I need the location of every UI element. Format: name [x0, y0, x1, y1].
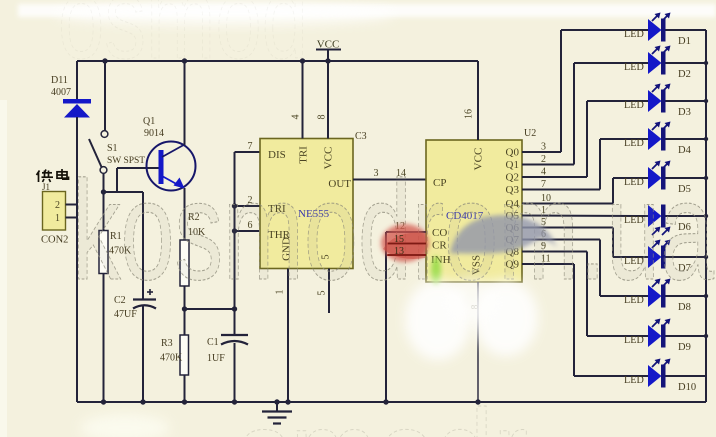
- svg-text:LED: LED: [624, 375, 644, 386]
- wire: NE555 pin 1 GND: [275, 269, 291, 405]
- svg-text:D10: D10: [678, 382, 696, 393]
- wire: NE555 pin 7 DIS stub: [235, 141, 261, 152]
- red marker blob: [381, 224, 429, 262]
- svg-text:4007: 4007: [51, 87, 71, 98]
- svg-text:LED: LED: [624, 100, 644, 111]
- wire: CD4017 pin 15 CR stub: [386, 234, 426, 245]
- green mark: [431, 256, 441, 286]
- capacitor C2 (polarized): [133, 289, 156, 402]
- counter U2 CD4017 body: [426, 140, 522, 282]
- label C3 (NE555 designator): [355, 131, 367, 142]
- label D10: [678, 382, 696, 393]
- LED D9: [624, 319, 671, 348]
- label D7: [678, 263, 691, 274]
- white band top: [18, 3, 716, 25]
- diode D11 label: [51, 75, 71, 98]
- label R3 470K: [160, 338, 183, 364]
- VCC power symbol: [316, 39, 341, 64]
- wire: LED D6 cathode to bus: [666, 215, 707, 217]
- connector J1 body: [43, 192, 66, 231]
- wire: NE555 pin 2 TRI stub: [232, 195, 260, 209]
- wire: CD4017 pin 13 INH stub: [386, 246, 426, 257]
- svg-text:2: 2: [55, 200, 60, 211]
- wire: NE555 pin 6 THR stub: [232, 220, 260, 234]
- wire: left vertical from rail to diode: [76, 61, 78, 100]
- diode D11: [63, 99, 91, 118]
- svg-text:15: 15: [394, 234, 404, 245]
- label D6: [678, 222, 691, 233]
- svg-text:8: 8: [317, 115, 328, 120]
- svg-text:LED: LED: [624, 29, 644, 40]
- svg-text:47UF: 47UF: [114, 309, 137, 320]
- svg-text:C3: C3: [355, 131, 367, 142]
- wire: ground rail: [77, 401, 706, 403]
- label 供电 (power): [37, 169, 69, 182]
- wire: CD4017 pin 12 CO stub: [386, 221, 426, 232]
- svg-text:D9: D9: [678, 342, 691, 353]
- wire: CD4017 pin 16 to rail: [464, 61, 479, 140]
- label U2: [524, 128, 536, 139]
- svg-text:4: 4: [291, 115, 302, 120]
- watermark kosmodrom.ua: [72, 151, 714, 309]
- wire: Q1 emitter down: [184, 188, 186, 240]
- svg-text:U2: U2: [524, 128, 536, 139]
- connector J1 designator: [42, 182, 50, 192]
- watermark faint top row: [58, 0, 308, 83]
- label C2 47UF: [114, 295, 137, 320]
- label D4: [678, 145, 692, 156]
- svg-text:C1: C1: [207, 337, 219, 348]
- label D3: [678, 107, 691, 118]
- wire: CD4017 pin 7 (Q3) to LED D4: [522, 139, 648, 190]
- wire: Q1 collector to rail: [182, 58, 187, 145]
- svg-text:D2: D2: [678, 69, 691, 80]
- gray-blue blob: [450, 215, 558, 254]
- wire: CD4017 pin 4 (Q2) to LED D3: [522, 101, 648, 178]
- label R2 10K: [188, 212, 206, 238]
- svg-text:CON2: CON2: [41, 235, 68, 246]
- wire: NE555 pins 7-2-6 vertical: [234, 152, 236, 310]
- wire: NE555 pin 4 to rail: [291, 58, 306, 138]
- svg-text:R3: R3: [161, 338, 173, 349]
- switch S1: [89, 131, 108, 174]
- watermark faint bottom row: [238, 385, 528, 437]
- label D9: [678, 342, 691, 353]
- wire: diode to J1 and ground rail: [76, 117, 78, 402]
- wire: CD4017 pin 3 (Q0) to LED D1: [522, 30, 648, 153]
- wire: switch to base node: [101, 174, 106, 195]
- svg-text:J1: J1: [42, 182, 50, 192]
- wire: VCC top rail: [77, 60, 478, 62]
- label D2: [678, 69, 691, 80]
- svg-text:LED: LED: [624, 138, 644, 149]
- label Q1 9014: [143, 116, 164, 139]
- wire: LED D2 cathode to bus: [666, 62, 707, 64]
- svg-text:LED: LED: [624, 62, 644, 73]
- LED D6: [624, 205, 671, 236]
- wire: node line: [182, 306, 237, 311]
- label CON2: [41, 235, 68, 246]
- resistor R1: [99, 192, 108, 402]
- svg-text:D1: D1: [678, 36, 691, 47]
- LED D5: [624, 161, 671, 190]
- wire: rail to switch: [102, 58, 107, 130]
- ground symbol: [262, 402, 292, 424]
- wire: base jog: [104, 168, 160, 193]
- label C1 1UF: [207, 337, 225, 364]
- wire: LED D8 cathode to bus: [666, 295, 707, 297]
- svg-text:Q1: Q1: [143, 116, 155, 127]
- svg-text:D3: D3: [678, 107, 691, 118]
- LED D4: [624, 122, 671, 151]
- resistor R3: [180, 309, 189, 402]
- svg-text:osmod: osmod: [58, 0, 308, 83]
- wire: CD4017 pin 1 (Q5) to LED D6: [522, 205, 648, 216]
- wire: right cathode bus: [705, 30, 707, 402]
- LED D1: [624, 13, 671, 42]
- wire: OUT pin 3 to CP pin 14: [353, 168, 426, 180]
- wire: CD4017 pin 8 VSS to ground rail: [470, 282, 481, 405]
- LED D7: [624, 240, 671, 269]
- label D1: [678, 36, 691, 47]
- LED D3: [624, 84, 671, 113]
- wire: LED D1 cathode to bus: [666, 29, 707, 31]
- svg-text:16: 16: [464, 109, 475, 119]
- LED D2: [624, 46, 671, 75]
- label D5: [678, 184, 691, 195]
- wire: LED D9 cathode to bus: [666, 335, 707, 337]
- svg-text:smodr: smodr: [238, 385, 528, 437]
- label R1 470K: [109, 231, 132, 257]
- wire: NE555 pin 8 to VCC: [317, 61, 329, 139]
- white patch bottom left: [0, 100, 170, 437]
- wire: LED D3 cathode to bus: [666, 100, 707, 102]
- wire: NE555 pin 5 stub: [317, 269, 330, 314]
- wire: CD4017 pin 2 (Q1) to LED D2: [522, 63, 648, 165]
- svg-text:1UF: 1UF: [207, 353, 225, 364]
- wire: CO/CR/INH vertical to ground: [383, 232, 388, 405]
- wire: CD4017 pin 11 (Q9) to LED D10: [522, 254, 648, 377]
- wire: CD4017 pin 6 (Q7) to LED D8: [522, 229, 648, 296]
- svg-text:LED: LED: [624, 335, 644, 346]
- wire: LED D10 cathode to bus: [666, 375, 707, 377]
- wire: J1 pin 2 stub: [66, 204, 78, 206]
- wire: CD4017 pin 5 (Q6) to LED D7: [522, 217, 648, 257]
- wire: LED D5 cathode to bus: [666, 177, 707, 179]
- svg-text:470K: 470K: [160, 353, 183, 364]
- svg-text:1: 1: [55, 213, 60, 224]
- junction dots on ground rail: [101, 399, 280, 404]
- wire: LED D7 cathode to bus: [666, 256, 707, 258]
- LED D10: [624, 359, 671, 388]
- white cloud below CD4017: [405, 278, 538, 360]
- transistor Q1: [147, 142, 196, 191]
- LED D8: [624, 279, 671, 308]
- resistor R2: [180, 240, 189, 310]
- capacitor C1: [221, 309, 248, 402]
- op-amp timer U? NE555 body: [260, 139, 353, 269]
- pin 15/13 red wires restamp: [388, 234, 426, 257]
- wire: J1 pin 1 stub: [66, 217, 78, 219]
- svg-text:13: 13: [394, 246, 404, 257]
- wire: node to C2: [117, 192, 143, 299]
- wire: CD4017 pin 10 (Q4) to LED D5: [522, 178, 648, 204]
- label S1 SW SPST: [107, 143, 145, 166]
- wire: CD4017 pin 9 (Q8) to LED D9: [522, 241, 648, 336]
- junction dots on bus: [704, 61, 708, 338]
- svg-text:9014: 9014: [144, 128, 164, 139]
- label D8: [678, 302, 691, 313]
- wire: LED D4 cathode to bus: [666, 138, 707, 140]
